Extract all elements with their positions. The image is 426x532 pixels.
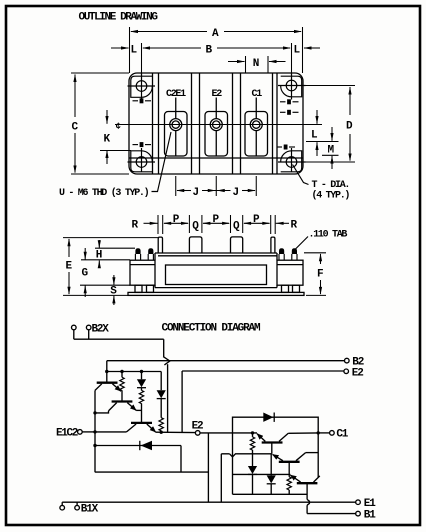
wire: Q6 emitter rail (233, 473, 291, 475)
terminal B1X circle (75, 505, 80, 510)
small reference marks right flange (277, 102, 299, 147)
svg-text:.110 TAB: .110 TAB (309, 230, 348, 241)
P1 line (164, 222, 188, 224)
svg-text:N: N (253, 58, 260, 70)
dimension C (71, 73, 129, 174)
thin tab 1 (158, 237, 162, 253)
dimension J J (176, 176, 257, 196)
wire: E2 terminal to right circuit rail (200, 432, 257, 434)
wire: B1X riser (220, 454, 222, 502)
dimension D (298, 86, 355, 163)
wire: Q5 collector to bus (306, 452, 319, 454)
freewheel diode DF2 (left, pointing left) (95, 445, 181, 447)
terminal C1 centerline vertical (255, 98, 257, 119)
svg-text:L: L (131, 44, 138, 56)
svg-text:C2E1: C2E1 (166, 89, 186, 100)
resistor R3 (160, 399, 162, 418)
terminal C1 well (245, 112, 268, 157)
svg-text:L: L (311, 129, 318, 141)
wire: B2X horizontal bus (74, 338, 164, 340)
svg-text:T - DIA.: T - DIA. (312, 180, 350, 191)
terminal C2E1 screw circle (170, 119, 182, 131)
inner vertical line x=232.5 (232, 73, 234, 174)
junction dot Q2 collector on bus (93, 411, 96, 414)
terminal E2 aux circle (344, 369, 349, 374)
inner vertical line x=277 (276, 73, 278, 174)
wire: Q6 base down with jog over E1 wire, to B1 (306, 483, 308, 499)
resistor R5 (252, 433, 254, 437)
svg-text:U - M6 THD (3 TYP.): U - M6 THD (3 TYP.) (59, 187, 149, 199)
dimension A (130, 27, 303, 73)
inner vertical line x=158.5 (158, 73, 160, 174)
terminal C2E1 well (165, 112, 188, 157)
svg-text:P: P (253, 214, 260, 226)
wire: C1 lead (318, 432, 329, 434)
module body outline (top view) (129, 73, 303, 174)
feet under blocks (135, 285, 142, 292)
dimension K (100, 110, 131, 164)
terminal bump 1 (189, 237, 202, 253)
terminal E1 circle (356, 500, 361, 505)
wire: B2X terminal stem (88, 330, 90, 339)
svg-text:J: J (233, 187, 240, 199)
wire: emitter bottom rail (233, 493, 308, 495)
case step walls (154, 253, 156, 260)
wire: E2 aux rail (182, 370, 344, 372)
mounting hole top-right (286, 80, 297, 91)
label recess rectangle (166, 265, 267, 285)
mounting hole top-left (136, 81, 147, 92)
P Q dimension extension lines (144, 215, 290, 234)
wire: Q4 collector rail to C1 (288, 432, 318, 434)
resistor R1 (121, 372, 123, 378)
svg-text:OUTLINE DRAWING: OUTLINE DRAWING (79, 12, 159, 24)
dimension N (228, 56, 286, 73)
dimension L right-side (306, 110, 339, 156)
terminal E2 well (205, 112, 228, 157)
transistor Q5 (right darlington driver) (273, 453, 306, 462)
case bottom between blocks (155, 287, 277, 289)
dimension H (95, 240, 135, 268)
svg-text:C: C (72, 122, 79, 134)
wire: right base rail with crossover notch (221, 454, 271, 457)
dimension L right-top (304, 47, 320, 49)
baseplate (128, 292, 304, 295)
svg-text:¢: ¢ (116, 122, 121, 132)
terminal aux circle (left of B2X) (72, 325, 77, 330)
junction dot collector bus top (317, 431, 320, 434)
wire: Q2 collector to bus (95, 411, 109, 413)
freewheel diode DF1 wire (top) (233, 417, 319, 433)
svg-text:M: M (328, 144, 335, 156)
svg-text:G: G (82, 268, 89, 280)
resistor R2 (141, 388, 143, 391)
svg-text:R: R (291, 219, 298, 231)
wire: right collector bus (317, 433, 319, 478)
svg-text:(4 TYP.): (4 TYP.) (312, 190, 350, 202)
svg-text:P: P (213, 214, 220, 226)
inner vertical line x=152.5 (152, 73, 154, 174)
svg-text:P: P (173, 214, 180, 226)
junction dot D1 top (140, 370, 143, 373)
junction dot DF2 on bus (93, 444, 96, 447)
wire: B1 lead (307, 513, 356, 515)
svg-text:E2: E2 (192, 420, 203, 432)
junction dot R1 top (120, 370, 123, 373)
inner vertical line x=272.5 (272, 73, 274, 174)
P2 line (203, 222, 229, 224)
svg-text:S: S (110, 285, 117, 297)
wire: base rail to B2 (107, 360, 345, 362)
centerline through terminals (115, 124, 322, 126)
svg-text:Q: Q (233, 221, 240, 233)
dimension E (63, 238, 158, 296)
svg-text:E2: E2 (212, 89, 223, 100)
svg-text:J: J (193, 187, 200, 199)
svg-text:E1: E1 (364, 498, 376, 510)
wire: B1X stems (61, 502, 63, 505)
wire: DF2 anode drop (180, 446, 182, 473)
P3 line (244, 222, 270, 224)
wire: E2 aux rail drop (181, 371, 183, 433)
faston pin bodies (135, 254, 297, 260)
svg-text:E: E (66, 261, 73, 273)
R left arrow line (144, 222, 158, 224)
wire: E2-side tie vertical (232, 433, 234, 494)
terminal E2 screw circle (210, 119, 222, 131)
terminal C1 circle (330, 431, 335, 436)
R right arrow line (276, 222, 289, 224)
mounting hole bottom-left (136, 157, 147, 168)
terminal C1 screw circle (250, 119, 262, 131)
svg-text:B1: B1 (364, 509, 376, 521)
wire: E1C2 terminal lead (82, 431, 95, 433)
terminal B1 circle (356, 511, 361, 516)
dimension M (322, 127, 339, 169)
svg-text:K: K (104, 134, 111, 146)
svg-text:C1: C1 (252, 89, 263, 100)
thin tab 2 (271, 237, 275, 253)
junction jog mark at base rail (163, 357, 170, 365)
wire: collector bus of left darlington (C2) (94, 390, 96, 472)
terminal bump 2 (231, 237, 243, 253)
junction dot E1C2 node (93, 430, 96, 433)
svg-text:B: B (206, 44, 213, 56)
wire: B1X / E1 wire (62, 501, 356, 503)
diode D1 (speed-up) (141, 372, 143, 380)
wire: B2X continuation down to E2 wire (167, 364, 169, 432)
dimension B (142, 43, 292, 80)
svg-text:D: D (346, 121, 353, 133)
diode D2 (speed-up) (160, 372, 162, 391)
svg-text:B2X: B2X (92, 323, 110, 335)
svg-text:B1X: B1X (81, 504, 99, 516)
inner vertical line x=240.5 (240, 73, 242, 174)
dimension F (304, 253, 326, 296)
wire: Q2 emitter to Q3 base (136, 409, 141, 411)
junction dot R3 bottom on E2 wire (160, 431, 163, 434)
transistor Q6 (right darlington input) (290, 475, 320, 483)
freewheel diode DF1 (pointing right) (263, 413, 273, 422)
inner vertical line x=191.5 (191, 73, 193, 174)
svg-text:C1: C1 (336, 429, 348, 441)
wire: E1C2 bottom rail (95, 471, 208, 473)
terminal C2E1 centerline vertical (175, 98, 177, 119)
dimension S (113, 275, 115, 305)
transistor Q4 (right darlington output) (257, 433, 288, 442)
inner vertical line x=199.5 (199, 73, 201, 174)
wire: Q3 collector to bus / E1C2 node (95, 431, 127, 433)
svg-text:F: F (317, 269, 324, 281)
transistor Q3 (left darlington output) (127, 423, 156, 432)
junction dot base rail / Q1 base (105, 370, 108, 373)
left end block (130, 260, 155, 285)
svg-text:R: R (132, 219, 139, 231)
wire: Q4 base down (271, 443, 273, 454)
small reference marks left flange (133, 101, 152, 145)
junction dot R5 top (251, 431, 254, 434)
svg-text:L: L (294, 44, 301, 56)
terminal B1X aux circle (60, 505, 65, 510)
terminal B2X circle (86, 325, 91, 330)
svg-text:A: A (212, 28, 219, 40)
horizontal line across body y=158 (129, 157, 303, 159)
wire: base rail corner down (106, 361, 108, 383)
wire: internal base rail (107, 371, 161, 373)
mounting hole bottom-right (286, 157, 297, 168)
svg-text:E2: E2 (352, 367, 363, 379)
svg-text:E1C2: E1C2 (56, 427, 78, 439)
diode D6 (270, 454, 272, 476)
terminal E1C2 circle (78, 430, 83, 435)
case top surface (double line) (155, 252, 277, 254)
right end block (277, 260, 303, 285)
wire: Q5 base down (288, 462, 290, 477)
transistor Q1 (left darlington input) (95, 383, 121, 392)
dimension G (80, 248, 130, 297)
terminal E2 centerline vertical (215, 98, 217, 119)
transistor Q2 (left darlington driver) (109, 402, 137, 411)
wire: Q3 emitter to E2 terminal (156, 431, 196, 433)
terminal E2 main circle (195, 431, 200, 436)
wire: aux terminal stem (73, 330, 75, 339)
svg-text:CONNECTION DIAGRAM: CONNECTION DIAGRAM (162, 323, 261, 335)
diode D5 (248, 466, 257, 474)
wire: E2 wire to E1/B1X wire vertical (207, 433, 209, 502)
svg-text:Q: Q (192, 221, 199, 233)
terminal B2 circle (345, 358, 350, 363)
dimension L left (111, 47, 129, 49)
wire: B2X drop, jogs over base rail (163, 339, 165, 357)
faston pin caps (black) on end blocks (135, 248, 297, 254)
resistor R6 (287, 477, 291, 490)
